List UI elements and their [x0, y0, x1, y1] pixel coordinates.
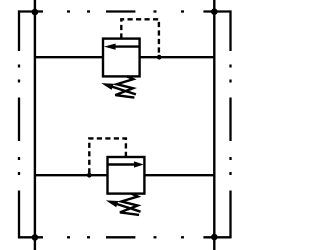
wire: left trunk line P: [34, 0, 36, 250]
enclosure boundary right edge (dash-dot): [229, 10, 231, 238]
valve V1 pilot line (dashed): [121, 19, 159, 57]
junction: V2 pilot tap on left port line: [87, 173, 92, 178]
valve V2 adjustable spring with arrow: [106, 194, 141, 215]
enclosure boundary bottom edge (dash-dot): [18, 236, 231, 238]
wire: valve V2 right port line: [144, 174, 214, 176]
valve V2 flow arrow (points right): [108, 161, 144, 167]
valve V2 body: [108, 157, 145, 194]
junction node: bottom-right corner dot: [211, 234, 218, 241]
junction node: bottom-left corner dot: [32, 234, 39, 241]
valve V1 flow arrow (points left): [104, 44, 140, 50]
valve V1 adjustable spring with arrow: [101, 76, 136, 97]
wire: valve V1 left port line: [35, 56, 103, 58]
wire: right trunk line T: [213, 0, 215, 250]
valve V2 pilot line (dashed): [89, 138, 126, 175]
valve V1 body: [103, 39, 140, 77]
wire: valve V2 left port line: [35, 174, 108, 176]
enclosure boundary top edge (dash-dot): [18, 10, 231, 12]
junction: V1 pilot tap on right port line: [157, 55, 162, 60]
wire: valve V1 right port line: [140, 56, 215, 58]
junction node: top-right corner dot: [211, 8, 218, 15]
junction node: top-left corner dot: [32, 9, 39, 16]
enclosure boundary left edge (dash-dot): [18, 10, 20, 238]
